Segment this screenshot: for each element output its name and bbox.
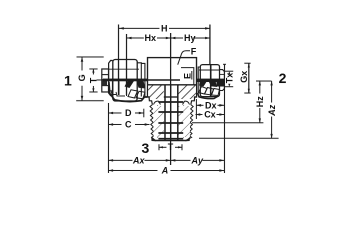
right extension line bottom bbox=[223, 64, 225, 173]
F leader bbox=[178, 51, 190, 65]
Az bottom tick bbox=[199, 137, 279, 139]
svg-text:3: 3 bbox=[141, 140, 149, 156]
branch bore cross line 2 bbox=[158, 111, 183, 113]
left nut section blocks bbox=[111, 81, 127, 96]
branch left wall hatch bbox=[153, 106, 164, 137]
left extension line bottom bbox=[107, 103, 109, 173]
left nut hex line a bbox=[118, 59, 120, 94]
svg-text:Gx: Gx bbox=[239, 71, 249, 83]
dim T left arrows bbox=[92, 69, 94, 92]
dim Hx line bbox=[127, 37, 171, 39]
svg-text:Ax: Ax bbox=[132, 156, 146, 166]
branch bore bottom band bbox=[158, 138, 183, 140]
branch bore left wall bbox=[164, 85, 166, 141]
branch shoulder right inner curve bbox=[182, 101, 189, 104]
right nut section waves bbox=[199, 87, 220, 96]
branch bottom chamfer dark left bbox=[151, 137, 156, 141]
branch centerline thick bbox=[170, 85, 172, 141]
dim Az line bbox=[271, 81, 273, 138]
body right flank hatch bbox=[178, 86, 196, 100]
right nut hex line bbox=[210, 65, 212, 97]
Hz bottom tick bbox=[192, 122, 263, 124]
svg-text:E: E bbox=[183, 73, 193, 79]
left nut section dark band bbox=[103, 79, 148, 82]
dim G tick bottom bbox=[76, 100, 104, 102]
dim H extension left bbox=[118, 24, 120, 59]
svg-text:T: T bbox=[88, 77, 98, 83]
right tube id lines bbox=[220, 73, 225, 75]
dim A line bbox=[108, 169, 224, 171]
dim Tx ticks bbox=[225, 70, 233, 72]
dim Hy arrows bbox=[171, 37, 210, 40]
svg-text:Ay: Ay bbox=[190, 156, 204, 166]
dim Dx arrows bbox=[196, 104, 224, 107]
body left flank hatch bbox=[148, 85, 164, 99]
branch thread root line right bbox=[183, 106, 185, 138]
right ferrule front dark bbox=[199, 81, 207, 87]
left nut collar bbox=[109, 60, 113, 95]
dim D arrows bbox=[108, 112, 143, 115]
svg-text:Hz: Hz bbox=[255, 96, 265, 108]
branch thread root line left bbox=[157, 105, 159, 137]
dim H line bbox=[119, 27, 210, 29]
branch bore cross line 3 bbox=[158, 122, 183, 124]
left nut hex line b bbox=[126, 59, 128, 94]
dim D line bbox=[108, 112, 143, 114]
right tube hidden line through nut bbox=[199, 69, 220, 71]
dim D tick bbox=[143, 109, 145, 118]
left tube stub bbox=[102, 69, 109, 92]
right nut collar bbox=[198, 67, 200, 93]
branch bottom chamfer dark right bbox=[185, 137, 190, 141]
right tube bottom dark bbox=[217, 81, 225, 87]
dim Hz line bbox=[259, 81, 261, 123]
branch right wall hatch bbox=[178, 106, 190, 137]
branch shoulder left inner curve bbox=[153, 101, 160, 104]
body bore bottom line bbox=[148, 84, 196, 86]
dim Tx arrows bbox=[228, 71, 230, 87]
svg-text:Tx: Tx bbox=[225, 73, 235, 84]
svg-text:G: G bbox=[77, 74, 87, 81]
dim C arrows bbox=[108, 123, 149, 126]
left nut section waves bbox=[128, 90, 145, 99]
right tube stub bbox=[220, 70, 225, 91]
dim Ay line bbox=[171, 159, 225, 161]
dim T bottom line bbox=[159, 146, 182, 148]
dim T left line bbox=[92, 69, 94, 92]
left tube hidden line through nut bbox=[109, 68, 140, 70]
right ferrule back dark bbox=[209, 81, 218, 87]
svg-text:Hy: Hy bbox=[184, 33, 196, 43]
right centerline through nut bbox=[197, 79, 225, 81]
svg-text:H: H bbox=[161, 23, 168, 33]
svg-text:Hx: Hx bbox=[145, 33, 157, 43]
dim Ax line bbox=[108, 159, 170, 161]
dim G tick top bbox=[77, 56, 104, 58]
left washer 1 bbox=[137, 63, 141, 97]
HzAz top tick bbox=[256, 80, 272, 82]
dim T bottom arrows bbox=[159, 146, 182, 148]
dim Gx arrows bbox=[248, 63, 250, 93]
left nut bbox=[113, 59, 137, 101]
right ext top tick bbox=[223, 63, 226, 65]
dim Hz arrows bbox=[259, 81, 261, 123]
branch shoulder right bbox=[191, 97, 197, 105]
svg-text:1: 1 bbox=[64, 73, 72, 89]
svg-text:D: D bbox=[125, 108, 132, 118]
left washer 2 bbox=[141, 63, 145, 96]
dim H arrows bbox=[119, 27, 210, 30]
branch bore cross line 1 bbox=[158, 101, 183, 103]
run centerline left stub bbox=[97, 79, 104, 81]
dim Cx arrows bbox=[195, 113, 224, 116]
dim Gx line bbox=[248, 63, 250, 93]
dim T left ticks bbox=[89, 68, 97, 70]
E label tick bbox=[191, 71, 193, 80]
dim T bottom ticks bbox=[158, 144, 160, 150]
branch bore right wall bbox=[177, 85, 179, 141]
dim Cx line bbox=[195, 114, 224, 116]
branch centerline bbox=[170, 33, 172, 165]
branch bore cross line 4 bbox=[158, 132, 183, 134]
dim Ax arrows bbox=[108, 159, 170, 162]
dim G arrows bbox=[81, 57, 84, 101]
left ferrule front dark bbox=[125, 81, 135, 88]
branch right thread zigzag bbox=[186, 105, 193, 141]
svg-text:A: A bbox=[161, 166, 169, 176]
dim A arrows bbox=[108, 169, 224, 172]
dim C line bbox=[108, 123, 149, 125]
svg-text:Cx: Cx bbox=[204, 110, 216, 120]
left tube wall dark blob bbox=[102, 79, 107, 86]
svg-text:Az: Az bbox=[267, 104, 277, 117]
dim Ay arrows bbox=[171, 159, 225, 162]
body bbox=[148, 58, 197, 97]
right nut section dark band bbox=[197, 79, 224, 82]
dim DxCx left tick bbox=[195, 99, 197, 119]
dim Dx line bbox=[196, 104, 224, 106]
dim G line bbox=[81, 57, 83, 101]
svg-text:2: 2 bbox=[279, 70, 287, 86]
dim H extension right bbox=[209, 25, 211, 65]
right nut bottom contour bbox=[198, 93, 218, 99]
dim Hx arrows bbox=[127, 37, 171, 40]
run centerline through part bbox=[103, 79, 180, 81]
svg-text:T: T bbox=[168, 142, 174, 152]
dim Hx extension left bbox=[126, 34, 128, 60]
branch left thread zigzag bbox=[150, 105, 155, 141]
right nut bbox=[200, 65, 219, 97]
svg-text:C: C bbox=[125, 120, 132, 130]
svg-text:F: F bbox=[191, 46, 197, 56]
branch bottom edge bbox=[155, 139, 187, 141]
left ferrule back dark bbox=[137, 81, 146, 89]
dim Az arrows bbox=[270, 81, 272, 138]
branch shoulder left bbox=[147, 97, 152, 105]
dim Hy line bbox=[171, 37, 210, 39]
left nut bottom contour bbox=[109, 82, 147, 102]
body step line E area bbox=[181, 68, 194, 85]
dim Gx ticks bbox=[244, 62, 250, 64]
